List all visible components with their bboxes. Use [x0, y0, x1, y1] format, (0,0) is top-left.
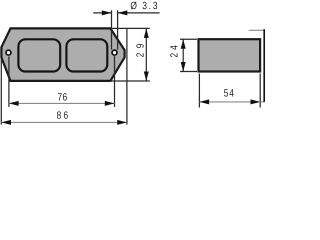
76 arrow left [9, 101, 19, 106]
54 extension line right [259, 74, 261, 108]
dia 3.3 dimension line left segment [93, 12, 111, 14]
54 arrow right [251, 99, 261, 104]
24 label [170, 45, 177, 57]
86 dimension line [1, 121, 127, 123]
dia 3.3 label [131, 2, 158, 10]
76 extension line left [8, 56, 10, 107]
76 extension line right [114, 56, 116, 107]
76 label [58, 93, 67, 100]
54 extension line left [198, 74, 200, 108]
76 arrow right [105, 101, 115, 106]
front view body outline [1, 28, 124, 81]
86 extension line left [0, 58, 2, 125]
29 label [136, 44, 143, 57]
29 arrow top [144, 28, 149, 38]
29 arrow bottom [144, 72, 149, 82]
dia 3.3 dimension line right segment [118, 12, 160, 14]
29 extension line bottom [111, 80, 150, 82]
54 dimension line tail to cut edge [260, 101, 264, 103]
cut-off dimension vertical line at right edge [263, 29, 265, 102]
86 arrow left [1, 120, 11, 125]
mounting hole right [112, 50, 117, 55]
29 extension line top [112, 27, 150, 29]
86 arrow right [117, 120, 127, 125]
54 dimension line [199, 101, 260, 103]
dia 3.3 extension line right [117, 10, 119, 49]
side view body [199, 39, 261, 71]
86 label [57, 111, 68, 118]
24 extension line bottom [180, 71, 197, 73]
dia 3.3 extension line left [111, 10, 113, 49]
86 extension line right [126, 29, 128, 125]
opening 2 (right rounded rectangle) [66, 39, 107, 71]
24 dimension line [182, 39, 184, 71]
76 dimension line [9, 102, 115, 104]
cut-off dimension horizontal line at right edge [249, 29, 265, 31]
24 arrow top [181, 39, 186, 49]
opening 1 (left rounded rectangle) [18, 39, 60, 71]
mounting hole left [6, 50, 11, 55]
24 extension line top [180, 38, 197, 40]
54 arrow left [199, 99, 209, 104]
dia 3.3 arrow right [118, 10, 128, 15]
54 label [224, 89, 234, 96]
dia 3.3 arrow left [102, 10, 112, 15]
24 arrow bottom [181, 62, 186, 72]
29 dimension line [145, 28, 147, 81]
